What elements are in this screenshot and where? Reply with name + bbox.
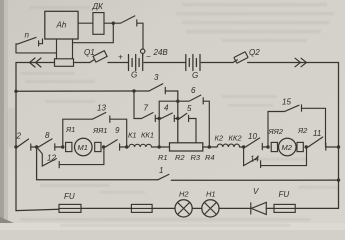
switch 2 xyxy=(16,132,37,151)
node: dot on left vertical xyxy=(14,90,17,93)
wire line 1 right segment xyxy=(171,179,338,181)
motor M1 xyxy=(66,138,101,156)
wire shunt to Q1 xyxy=(74,62,90,64)
svg-text:ЯЯ2: ЯЯ2 xyxy=(268,127,284,136)
svg-text:Я1: Я1 xyxy=(65,125,75,134)
svg-text:V: V xyxy=(253,187,259,196)
svg-text:R1: R1 xyxy=(158,153,168,162)
wire shunt sense leads xyxy=(57,39,73,59)
switch 10 xyxy=(244,132,268,150)
lamp H2 xyxy=(175,190,192,217)
svg-text:ЯЯ1: ЯЯ1 xyxy=(92,126,107,135)
connector chevrons << xyxy=(30,58,42,67)
svg-text:КК2: КК2 xyxy=(229,134,243,143)
svg-text:11: 11 xyxy=(313,129,321,138)
switch n xyxy=(16,31,43,53)
svg-text:12: 12 xyxy=(47,154,56,163)
wire bus right segment to corner xyxy=(165,90,178,92)
node I xyxy=(242,145,245,148)
relay coil К2 КК2 xyxy=(215,134,243,148)
wire battery tap circle terminal xyxy=(141,49,145,53)
battery G (right) xyxy=(186,55,200,81)
switch 6 xyxy=(178,86,210,147)
node B xyxy=(158,117,161,120)
wire Q1 to battery + xyxy=(108,62,129,64)
node J xyxy=(266,145,269,148)
node K xyxy=(305,145,308,148)
wire node down and left to shunt lead xyxy=(73,23,114,43)
node: dot switch6 tap xyxy=(208,145,211,148)
switch 11 xyxy=(306,129,338,150)
svg-text:+: + xyxy=(118,53,123,62)
fuse-switch Q2 xyxy=(233,48,260,63)
switch 7 xyxy=(142,104,160,122)
switch 12 (bypass under M1) xyxy=(37,147,104,168)
svg-text:−: − xyxy=(146,52,151,61)
battery G (left) xyxy=(129,55,143,80)
svg-text:FU: FU xyxy=(279,190,290,199)
node H xyxy=(158,145,161,148)
svg-text:Q1: Q1 xyxy=(84,48,95,57)
node: dot on right vertical xyxy=(337,145,340,148)
switch 1 xyxy=(158,166,169,180)
resistor box R1-R4 xyxy=(170,143,203,151)
fuse FU (right) xyxy=(274,190,295,212)
switch 8 xyxy=(37,131,63,150)
switch 14 (bypass under M2) xyxy=(244,147,307,168)
svg-text:7: 7 xyxy=(144,104,149,113)
svg-text:R3: R3 xyxy=(191,153,201,162)
wire A to left corner xyxy=(159,101,178,147)
svg-text:К1: К1 xyxy=(128,131,137,140)
svg-text:G: G xyxy=(131,71,137,80)
svg-text:К2: К2 xyxy=(215,134,224,143)
svg-text:13: 13 xyxy=(97,104,106,113)
switch 5 xyxy=(178,104,196,143)
wire Q2 to right corner xyxy=(248,62,339,64)
wire coil to node I xyxy=(240,146,244,148)
svg-text:10: 10 xyxy=(248,132,257,141)
diode V xyxy=(251,187,266,215)
svg-text:2: 2 xyxy=(16,132,22,141)
wire coil to box xyxy=(152,146,170,148)
wire n branch to shunt lead xyxy=(16,52,57,54)
svg-text:R4: R4 xyxy=(205,153,215,162)
svg-text:FU: FU xyxy=(64,192,75,201)
svg-text:3: 3 xyxy=(154,73,159,82)
switch 15 xyxy=(268,98,326,148)
svg-text:КК1: КК1 xyxy=(141,131,154,140)
svg-text:n: n xyxy=(25,31,30,40)
switch 13 (bypass over M1) xyxy=(63,104,127,148)
node: left vertical bus xyxy=(15,63,17,211)
svg-text:5: 5 xyxy=(187,104,192,113)
svg-text:R2: R2 xyxy=(175,153,185,162)
svg-text:14: 14 xyxy=(250,155,259,164)
wire main top line left segment xyxy=(16,62,55,64)
wire battery to Q2 xyxy=(201,62,233,64)
wire bus branch down to switch 7 xyxy=(134,91,142,119)
svg-text:ДК: ДК xyxy=(92,2,105,11)
svg-text:Q2: Q2 xyxy=(249,48,260,57)
node C xyxy=(176,117,179,120)
node: dot on left vertical at branch xyxy=(14,145,17,148)
switch (battery tap) xyxy=(113,16,143,49)
relay ДК xyxy=(78,2,104,34)
fuse (middle, unlabeled) xyxy=(131,204,152,212)
svg-text:Н1: Н1 xyxy=(206,190,216,199)
node D xyxy=(35,145,38,148)
connector chevrons >> xyxy=(295,58,307,67)
node: dot switch3 branch xyxy=(132,89,135,92)
svg-text:24В: 24В xyxy=(153,48,169,57)
node A xyxy=(176,100,179,103)
svg-text:9: 9 xyxy=(115,126,120,135)
wire between batteries xyxy=(144,62,186,64)
node F xyxy=(102,145,105,148)
svg-text:М2: М2 xyxy=(282,143,293,152)
svg-text:6: 6 xyxy=(191,86,196,95)
wire ДК to node xyxy=(104,22,113,24)
node E xyxy=(61,145,64,148)
relay coil К1 КК1 xyxy=(128,131,154,148)
svg-text:8: 8 xyxy=(45,131,50,140)
svg-text:G: G xyxy=(192,71,198,80)
shunt RS under Ah xyxy=(55,59,74,67)
wire vertical x=177.8 down to resistor box xyxy=(177,91,179,143)
fuse FU (left) xyxy=(59,192,81,212)
switch 4 xyxy=(159,104,178,122)
node: right vertical bus xyxy=(338,63,340,209)
ampere-hour meter Ah xyxy=(45,11,78,39)
page left edge shading xyxy=(0,0,4,230)
switch 9 xyxy=(104,126,127,150)
svg-text:1: 1 xyxy=(159,166,163,175)
svg-text:Я2: Я2 xyxy=(297,126,308,135)
lamp H1 xyxy=(202,190,219,217)
svg-text:Н2: Н2 xyxy=(179,190,189,199)
svg-text:Ah: Ah xyxy=(56,21,67,30)
wire from node D down xyxy=(37,147,158,180)
node: dot on right vertical xyxy=(337,178,340,181)
bottom-left corner dark blob xyxy=(0,217,14,230)
svg-text:М1: М1 xyxy=(78,143,88,152)
switch 3 xyxy=(149,73,165,94)
svg-text:4: 4 xyxy=(164,104,169,113)
wire box to K2 coil xyxy=(203,146,217,148)
wire lamp line xyxy=(16,209,59,210)
wire bus left segment xyxy=(16,90,149,92)
svg-text:15: 15 xyxy=(282,98,291,107)
node G xyxy=(125,145,128,148)
motor M2 xyxy=(271,138,303,156)
node junction at ДК output xyxy=(112,22,115,25)
fuse-switch Q1 xyxy=(84,48,107,63)
